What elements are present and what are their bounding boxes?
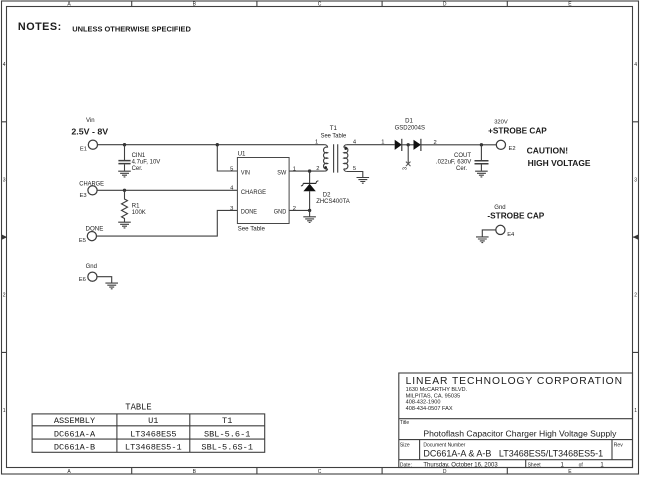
- T1 phase dot secondary: [344, 147, 347, 150]
- svg-text:2: 2: [316, 166, 319, 172]
- svg-text:Vin: Vin: [86, 118, 95, 124]
- ground at U1 GND / D2: [309, 210, 311, 216]
- terminal E2: [496, 140, 515, 152]
- svg-text:LINEAR TECHNOLOGY CORPORATION: LINEAR TECHNOLOGY CORPORATION: [406, 376, 622, 387]
- terminal E3: [80, 186, 98, 199]
- svg-text:2: 2: [3, 293, 6, 299]
- assembly table: [32, 403, 265, 453]
- svg-text:DONE: DONE: [241, 209, 258, 216]
- svg-text:UNLESS OTHERWISE SPECIFIED: UNLESS OTHERWISE SPECIFIED: [72, 25, 191, 34]
- junction D2 tap on SW: [308, 169, 311, 172]
- wire GND from U1 pin 2 to D2 anode: [289, 209, 310, 211]
- svg-text:Date:: Date:: [400, 462, 412, 468]
- terminal E5: [79, 232, 97, 244]
- wire D1 to E2 strobe cap: [421, 144, 497, 146]
- T1 core: [334, 144, 338, 172]
- junction COUT tap: [480, 143, 483, 146]
- svg-text:1630 McCARTHY BLVD.: 1630 McCARTHY BLVD.: [406, 387, 468, 393]
- svg-text:Cer.: Cer.: [456, 166, 467, 172]
- svg-text:T1: T1: [222, 416, 232, 426]
- T1 primary winding: [324, 145, 328, 171]
- svg-text:4: 4: [634, 62, 637, 68]
- svg-text:D2: D2: [323, 193, 331, 199]
- svg-text:LT3468ES5: LT3468ES5: [130, 429, 176, 439]
- svg-text:1: 1: [381, 140, 384, 146]
- svg-text:D: D: [443, 1, 447, 7]
- svg-text:2: 2: [293, 206, 296, 212]
- svg-text:E1: E1: [80, 147, 87, 153]
- svg-text:SW: SW: [277, 169, 287, 176]
- svg-text:C: C: [318, 1, 322, 7]
- svg-text:E6: E6: [79, 277, 86, 283]
- wire T1 pin 5 to ground: [347, 172, 363, 178]
- svg-text:E2: E2: [509, 146, 516, 152]
- svg-text:1: 1: [315, 140, 318, 146]
- svg-text:Rev: Rev: [614, 442, 623, 448]
- junction CIN1 tap: [123, 143, 126, 146]
- svg-text:D1: D1: [405, 118, 413, 124]
- svg-text:3: 3: [3, 177, 6, 183]
- svg-text:1: 1: [634, 408, 637, 414]
- svg-text:E4: E4: [507, 232, 515, 238]
- svg-text:2: 2: [634, 293, 637, 299]
- svg-text:CIN1: CIN1: [132, 153, 146, 159]
- svg-text:LT3468ES5-1: LT3468ES5-1: [125, 443, 182, 453]
- svg-text:Photoflash Capacitor Charger H: Photoflash Capacitor Charger High Voltag…: [423, 428, 617, 438]
- svg-text:U1: U1: [238, 150, 246, 157]
- svg-text:See Table: See Table: [321, 133, 347, 139]
- svg-text:R1: R1: [132, 204, 140, 210]
- wire E4 to ground: [482, 230, 496, 237]
- ground at E6: [105, 283, 118, 289]
- junction GND/D2: [308, 209, 311, 212]
- ground at E4: [476, 237, 489, 243]
- svg-text:ZHCS400TA: ZHCS400TA: [316, 199, 350, 205]
- svg-text:Gnd: Gnd: [86, 264, 97, 270]
- svg-text:NOTES:: NOTES:: [18, 21, 62, 33]
- wire DONE from E5 up to U1 pin 3: [96, 210, 237, 236]
- svg-text:CHARGE: CHARGE: [241, 189, 267, 196]
- svg-text:TABLE: TABLE: [125, 403, 151, 413]
- ground at COUT: [475, 171, 488, 177]
- svg-text:Size: Size: [400, 442, 410, 448]
- svg-text:2.5V - 8V: 2.5V - 8V: [71, 126, 108, 136]
- svg-text:See Table: See Table: [238, 225, 266, 232]
- svg-text:U1: U1: [148, 416, 158, 426]
- diode D2 schottky: [301, 171, 350, 210]
- svg-text:DC661A-A & A-B LT3468ES5/LT3: DC661A-A & A-B LT3468ES5/LT3468ES5-1: [423, 449, 603, 459]
- no-connect stub D1 pin 3: [402, 145, 410, 170]
- svg-text:3: 3: [230, 206, 233, 212]
- terminal E1: [80, 140, 98, 153]
- net label Vin 2.5V - 8V: [71, 118, 108, 136]
- title block: [399, 373, 633, 468]
- T1 secondary winding: [344, 145, 348, 172]
- svg-text:3: 3: [402, 167, 408, 170]
- junction R1 tap: [123, 189, 126, 192]
- svg-text:1: 1: [293, 166, 296, 172]
- junction VIN tap: [216, 143, 219, 146]
- svg-text:MILPITAS, CA. 95035: MILPITAS, CA. 95035: [406, 393, 461, 399]
- diode D1a: [395, 139, 402, 151]
- svg-text:DC661A-B: DC661A-B: [54, 443, 95, 453]
- wire SW from U1 pin 1 to T1 pin 2: [289, 170, 325, 172]
- svg-text:Sheet: Sheet: [528, 462, 542, 468]
- svg-text:408-434-0507 FAX: 408-434-0507 FAX: [406, 406, 453, 412]
- wire VIN drop from Vin bus to U1 pin 5: [217, 145, 237, 171]
- svg-text:Document Number: Document Number: [423, 442, 465, 448]
- terminal E4: [496, 225, 515, 238]
- caution text: [527, 145, 591, 168]
- svg-text:COUT: COUT: [454, 153, 471, 159]
- svg-text:of: of: [579, 462, 584, 468]
- ground at CIN1: [118, 171, 131, 177]
- svg-text:GND: GND: [274, 209, 287, 216]
- wire Vin bus from E1 to T1 pin 1: [97, 144, 324, 146]
- svg-text:HIGH VOLTAGE: HIGH VOLTAGE: [528, 158, 591, 168]
- svg-text:VIN: VIN: [241, 169, 250, 176]
- capacitor COUT: [475, 145, 489, 171]
- svg-text:T1: T1: [330, 125, 338, 132]
- resistor R1: [122, 190, 128, 222]
- svg-text:GSD2004S: GSD2004S: [395, 126, 425, 132]
- IC U1: [237, 158, 289, 224]
- svg-text:Cer.: Cer.: [132, 166, 143, 172]
- capacitor CIN1: [118, 145, 130, 171]
- svg-text:E3: E3: [80, 193, 87, 199]
- T1 phase dot primary: [324, 166, 327, 169]
- diode D1b: [414, 139, 421, 151]
- transformer T1: [315, 125, 357, 172]
- svg-text:E5: E5: [79, 238, 86, 244]
- svg-text:CHARGE: CHARGE: [79, 180, 104, 187]
- svg-text:+STROBE CAP: +STROBE CAP: [488, 126, 547, 135]
- svg-text:Gnd: Gnd: [494, 205, 505, 211]
- svg-text:4: 4: [3, 62, 6, 68]
- terminal E6: [79, 272, 97, 283]
- svg-text:DONE: DONE: [86, 226, 104, 233]
- svg-text:SBL-5.6-1: SBL-5.6-1: [204, 429, 250, 439]
- svg-text:CAUTION!: CAUTION!: [527, 145, 569, 155]
- wire between D1 diodes: [402, 144, 414, 146]
- svg-text:4.7uF, 10V: 4.7uF, 10V: [132, 159, 161, 165]
- svg-text:C: C: [318, 469, 322, 475]
- ground at R1: [118, 222, 131, 228]
- svg-text:3: 3: [634, 177, 637, 183]
- wire E6 to ground: [97, 277, 112, 283]
- net label Gnd -STROBE CAP: [487, 205, 544, 221]
- svg-text:5: 5: [230, 166, 233, 172]
- ground at T1 pin 5: [357, 178, 370, 184]
- net label 320V +STROBE CAP: [488, 119, 547, 135]
- svg-text:Thursday, October 16, 2003: Thursday, October 16, 2003: [423, 462, 498, 468]
- svg-text:DC661A-A: DC661A-A: [54, 429, 96, 439]
- svg-text:SBL-5.6S-1: SBL-5.6S-1: [201, 443, 253, 453]
- svg-text:408-432-1900: 408-432-1900: [406, 400, 441, 406]
- svg-text:Title: Title: [400, 420, 409, 426]
- svg-text:D: D: [443, 469, 447, 475]
- svg-text:320V: 320V: [494, 119, 508, 125]
- svg-text:.022uF, 630V: .022uF, 630V: [436, 160, 471, 166]
- wire CHARGE from E3 to U1 pin 4: [97, 189, 237, 191]
- wire T1 secondary top to D1: [347, 144, 395, 146]
- svg-text:-STROBE CAP: -STROBE CAP: [487, 212, 544, 221]
- junction D1 common pin 3: [407, 143, 410, 146]
- svg-text:ASSEMBLY: ASSEMBLY: [54, 416, 95, 426]
- svg-text:1: 1: [3, 408, 6, 414]
- svg-text:100K: 100K: [132, 210, 146, 216]
